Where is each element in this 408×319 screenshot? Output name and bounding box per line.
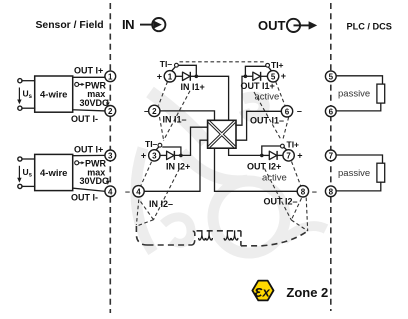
dashed bottom enclosure right riser	[240, 231, 242, 246]
dashed link circle5 to circle6	[276, 82, 285, 106]
dashed bottom enclosure left riser curl	[192, 231, 195, 245]
dashed link junction IN I2+ to bottom node V1	[154, 169, 180, 220]
wire 4-wire box 2 to terminal 3	[73, 154, 105, 156]
dashed bottom enclosure bottom right edge	[241, 231, 308, 246]
svg-text:IN I1+: IN I1+	[181, 82, 205, 92]
right zone border dashed line	[330, 3, 332, 311]
svg-text:OUT: OUT	[258, 18, 286, 33]
svg-text:IN I2–: IN I2–	[149, 199, 173, 209]
circuit terminal circle 3	[149, 150, 160, 161]
sensor terminal circle bottom of source 2	[18, 184, 22, 188]
svg-text:IN: IN	[122, 17, 134, 32]
dashed link V1 to enclosure corner	[137, 220, 154, 226]
circuit terminal circle 2	[149, 105, 160, 116]
dashed link V2 to enclosure right corner	[291, 220, 307, 231]
passive loop 1 return wire	[336, 103, 381, 111]
wire diode D7 to circle7	[277, 154, 283, 156]
svg-text:Sensor / Field: Sensor / Field	[36, 20, 104, 31]
svg-text:TI–: TI–	[160, 59, 173, 69]
wire 4-wire box 2 to terminal 4	[73, 188, 105, 191]
svg-text:8: 8	[329, 187, 334, 196]
PWR supply symbol 2 (circle arrow)	[75, 161, 85, 165]
dashed bottom enclosure left side	[136, 226, 147, 245]
passive load resistor R1	[377, 84, 385, 103]
circuit terminal circle 7	[283, 150, 294, 161]
voltage source Us arrow 2	[17, 166, 32, 183]
wire source2 top to 4-wire box 2	[22, 158, 35, 160]
sensor terminal circle top of source 1	[18, 79, 22, 83]
device terminal 4 (left column)	[105, 186, 116, 197]
30VDC down arrow 2	[106, 178, 110, 185]
svg-text:OUT I2+: OUT I2+	[247, 162, 281, 172]
passive loop 2 return wire	[336, 182, 381, 191]
svg-text:4-wire: 4-wire	[40, 90, 67, 101]
PLC terminal circle 6	[325, 106, 336, 117]
TI stub wire ch3	[163, 147, 181, 155]
svg-text:30VDC: 30VDC	[80, 98, 110, 108]
wire diode D3 to transformer left	[174, 127, 207, 155]
wire circle6 to transformer	[236, 111, 281, 140]
label PWR max 30VDC block 2	[80, 159, 110, 187]
wire transformer to circle8	[215, 148, 298, 191]
diode D3 (IN I2+)	[167, 151, 175, 160]
svg-text:active: active	[255, 92, 280, 103]
TI hook ch3	[156, 143, 162, 150]
junction node OUT I2+	[260, 154, 264, 158]
IN direction symbol (arrow into circle)	[140, 18, 165, 31]
dashed bottom enclosure bottom left edge	[148, 244, 193, 246]
device terminal 1 (left column)	[105, 71, 116, 82]
diode D1 (IN I1+)	[183, 72, 191, 81]
svg-text:3: 3	[152, 151, 157, 160]
wire source2 bottom to 4-wire box 2	[22, 185, 35, 187]
dashed link circle4 to bottom node V1	[141, 202, 154, 220]
dashed link circle6 to TI hook ch7	[283, 117, 289, 139]
dashed link circle8 to bottom node V2	[291, 198, 301, 220]
circuit terminal circle 8	[297, 186, 308, 197]
diode D7 (OUT I2+)	[269, 151, 277, 160]
svg-text:OUT I-: OUT I-	[71, 114, 98, 124]
svg-text:–: –	[312, 187, 317, 197]
4-wire transmitter box 1	[35, 76, 73, 112]
sensor terminal circle top of source 2	[18, 157, 22, 161]
svg-text:–: –	[125, 187, 130, 197]
svg-text:–: –	[297, 106, 302, 116]
svg-text:OUT I1+: OUT I1+	[241, 81, 275, 91]
OUT direction symbol (arrow out of circle)	[287, 19, 317, 32]
wire circle2 to transformer	[160, 111, 215, 120]
wire circle1 to diode D1	[176, 75, 183, 77]
dashed link circle3 to circle4	[141, 162, 152, 187]
svg-text:OUT I+: OUT I+	[74, 66, 103, 76]
wire diode D1 to transformer via junction	[190, 76, 228, 120]
PLC terminal circle 8	[325, 186, 336, 197]
passive loop 2 wires	[336, 155, 382, 163]
wire source1 top to 4-wire box	[22, 80, 35, 82]
svg-text:2: 2	[152, 107, 157, 116]
watermark swirl	[136, 92, 326, 253]
svg-text:passive: passive	[338, 89, 370, 100]
30VDC down arrow 1	[106, 100, 110, 107]
svg-text:5: 5	[329, 72, 334, 81]
TI hook ch5	[266, 63, 272, 70]
bus connector fork 4	[231, 231, 237, 240]
voltage source Us arrow 1	[17, 88, 32, 105]
svg-text:+: +	[297, 151, 302, 161]
transformer isolator box	[208, 120, 236, 148]
svg-text:Zone 2: Zone 2	[286, 285, 328, 300]
sensor terminal circle bottom of source 1	[18, 106, 22, 110]
svg-text:8: 8	[301, 187, 306, 196]
PLC terminal circle 5	[325, 71, 336, 82]
junction node IN I1+	[195, 75, 199, 79]
svg-text:IN I1–: IN I1–	[163, 115, 187, 125]
device terminal 2 (left column)	[105, 106, 116, 117]
svg-text:7: 7	[329, 151, 334, 160]
svg-text:6: 6	[285, 107, 290, 116]
svg-text:+: +	[281, 71, 286, 81]
TI stub wire ch7	[262, 146, 280, 155]
TI hook ch1	[172, 63, 179, 70]
circuit terminal circle 1	[164, 71, 175, 82]
passive load resistor R2	[377, 163, 385, 182]
circuit terminal circle 4	[133, 186, 144, 197]
dashed link circle2 to TI hook ch3	[160, 117, 164, 140]
svg-text:+: +	[157, 72, 162, 82]
wire junction to diode D7	[262, 154, 270, 156]
passive loop 1 wires	[336, 76, 382, 84]
svg-text:4: 4	[136, 187, 141, 196]
dashed link circle1 to circle2	[159, 82, 168, 106]
dashed test link TI ch1 to ch5	[180, 61, 265, 63]
svg-text:5: 5	[271, 72, 276, 81]
dashed link junction OUT I1+ to TI hook ch7	[254, 92, 282, 141]
svg-text:εx: εx	[254, 282, 270, 301]
svg-text:7: 7	[286, 151, 291, 160]
bus connector fork 2	[206, 231, 212, 240]
dashed link circle8 down to enclosure right corner	[306, 198, 308, 231]
svg-text:active: active	[262, 173, 287, 184]
TI hook ch7	[281, 144, 287, 150]
TI stub wire ch1	[179, 65, 197, 76]
wire transformer to junction OUT I2+	[229, 148, 262, 155]
junction node IN I2+	[179, 154, 183, 158]
dashed bus connector rail	[197, 230, 241, 232]
PWR supply symbol 1 (circle arrow)	[75, 82, 85, 86]
svg-text:+: +	[141, 151, 146, 161]
wire 4-wire box 1 to terminal 1	[73, 76, 105, 77]
svg-text:1: 1	[168, 72, 173, 81]
device terminal 3 (left column)	[105, 150, 116, 161]
svg-text:30VDC: 30VDC	[80, 176, 110, 186]
svg-text:1: 1	[108, 72, 113, 81]
Ex hazardous area logo	[252, 281, 273, 301]
svg-text:TI+: TI+	[271, 60, 284, 70]
left zone border dashed line	[109, 3, 111, 313]
TI stub wire ch5	[245, 66, 265, 76]
wire transformer to junction OUT I1+	[236, 76, 245, 125]
svg-text:OUT I2–: OUT I2–	[264, 197, 298, 207]
wire junction to diode D5	[245, 75, 252, 77]
svg-text:TI–: TI–	[145, 139, 158, 149]
circuit terminal circle 5	[267, 71, 278, 82]
wire source1 bottom to 4-wire box	[22, 107, 35, 109]
svg-text:PLC / DCS: PLC / DCS	[347, 21, 392, 31]
wire circle3 to diode D3	[160, 154, 167, 156]
svg-text:3: 3	[108, 151, 113, 160]
svg-text:OUT I-: OUT I-	[71, 193, 98, 203]
dashed link junction IN I1+ to TI hook ch3	[164, 91, 191, 141]
svg-text:4-wire: 4-wire	[40, 168, 67, 179]
dashed link circle4 down to enclosure	[136, 200, 138, 226]
circuit terminal circle 6	[281, 106, 292, 117]
dashed link circle7 to circle8	[292, 162, 302, 187]
svg-text:2: 2	[108, 107, 113, 116]
junction node OUT I1+	[244, 75, 248, 79]
svg-text:TI+: TI+	[287, 139, 300, 149]
wire circle4 to transformer	[144, 140, 207, 191]
bus connector fork 3	[224, 231, 230, 240]
svg-text:6: 6	[329, 107, 334, 116]
svg-text:OUT I1–: OUT I1–	[250, 115, 284, 125]
label PWR max 30VDC block 1	[80, 80, 110, 108]
wire diode D5 to circle5	[261, 75, 268, 77]
svg-text:OUT I+: OUT I+	[74, 145, 103, 155]
diode D5 (OUT I1+)	[253, 72, 261, 81]
svg-text:passive: passive	[338, 168, 370, 179]
wire 4-wire box 1 to terminal 2	[73, 110, 105, 111]
svg-text:4: 4	[108, 187, 113, 196]
dashed link junction OUT I2+ to bottom node V2	[265, 169, 292, 221]
PLC terminal circle 7	[325, 150, 336, 161]
4-wire transmitter box 2	[35, 154, 73, 190]
bus connector fork 1	[199, 231, 205, 240]
svg-text:IN I2+: IN I2+	[166, 162, 190, 172]
